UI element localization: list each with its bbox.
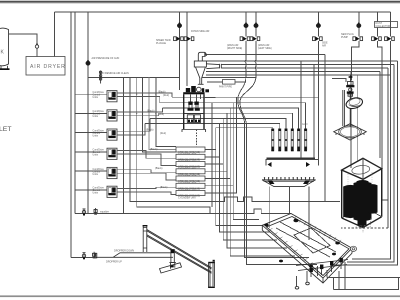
svg-text:Units: Units	[93, 154, 99, 157]
spray gun 2	[278, 129, 281, 152]
wire pump connector	[332, 79, 346, 83]
wire right nest 2	[347, 65, 394, 263]
gauge+frl new plug pump	[353, 12, 363, 41]
dropper plate	[160, 263, 182, 273]
junction dots	[123, 94, 156, 114]
paint pipe box	[207, 80, 246, 89]
wire bus to dust collector	[377, 12, 379, 22]
wire frl318 jog	[317, 41, 319, 160]
svg-text:CYLINDER UNIT: CYLINDER UNIT	[178, 197, 197, 200]
pump stand post	[343, 90, 350, 127]
pump stand motor	[346, 75, 354, 97]
valve ball equalize	[82, 209, 85, 216]
wire tank to valve	[9, 34, 38, 44]
wire box6 riser	[205, 103, 233, 186]
pump base plate	[334, 124, 367, 140]
wire box5 riser	[205, 108, 230, 178]
svg-text:(Black): (Black)	[146, 129, 154, 132]
dropper arm	[95, 253, 173, 258]
main air bus	[55, 11, 391, 13]
svg-text:GUN: GUN	[302, 123, 308, 126]
dropper beam end post	[208, 260, 215, 288]
spray gun 4	[291, 129, 294, 152]
unit output wires to label boxes	[117, 151, 176, 159]
bottom right wrap lines	[327, 262, 345, 290]
svg-text:(Black): (Black)	[158, 90, 166, 93]
wire tank to right	[204, 96, 216, 98]
svg-text:Units: Units	[93, 96, 99, 99]
paint tank fittings	[186, 86, 209, 92]
unit output wires: unit1 to gun nest	[117, 93, 172, 97]
black cylinder bundle	[343, 180, 377, 227]
frl dust 1	[372, 28, 382, 41]
black box dotted edges	[348, 172, 372, 214]
cyclone inlet duct	[206, 64, 221, 69]
svg-text:equalize: equalize	[100, 210, 110, 213]
paint tank lid	[183, 92, 204, 94]
valve ball dropper	[82, 253, 85, 260]
air dryer box	[26, 57, 66, 76]
wire header drop 6	[156, 78, 176, 147]
wire header drop 3	[137, 78, 210, 214]
cyclone body	[194, 61, 206, 84]
wire gun clean header	[88, 77, 180, 79]
wire black box feeds	[350, 72, 352, 169]
svg-text:PAINT PIPE: PAINT PIPE	[219, 86, 232, 89]
svg-text:(Black): (Black)	[155, 167, 163, 170]
control unit 3	[75, 129, 117, 140]
paint tank agitator	[188, 94, 201, 111]
wire header drop 5	[149, 78, 176, 150]
svg-text:(Red): (Red)	[160, 132, 166, 135]
wire dust drop 2 to bottom	[352, 41, 391, 259]
dropper beam diagonals	[147, 230, 212, 274]
table top	[262, 214, 352, 284]
wire dropper line	[71, 256, 96, 258]
wire box7 riser	[205, 97, 237, 193]
bottom border frame line	[0, 295, 400, 297]
valve stack on clean header	[99, 71, 101, 84]
svg-text:Units: Units	[93, 134, 99, 137]
wire x380 drop	[379, 72, 381, 159]
wire box3 riser	[205, 119, 223, 165]
spray gun 6	[304, 129, 307, 152]
louver teeth	[264, 177, 314, 180]
frl dust 2	[385, 12, 395, 41]
wire right nest 3	[333, 61, 398, 265]
wire right nest 4	[387, 68, 389, 228]
control unit 4	[75, 148, 117, 159]
louver legs	[270, 187, 309, 240]
control unit 1	[75, 91, 117, 102]
dashed drop to box1	[196, 130, 198, 148]
label box 6	[176, 183, 205, 192]
svg-text:AIR DRYER: AIR DRYER	[30, 64, 66, 70]
wire x301 drop	[300, 61, 302, 160]
gauge+frl main air left	[250, 12, 260, 41]
paint tank inner containers	[187, 115, 200, 123]
black box frame top	[342, 158, 382, 227]
air tank (cut off at left edge)	[0, 28, 10, 70]
label box 2	[176, 154, 205, 163]
label box 7	[176, 191, 205, 200]
spray gun 5	[297, 129, 300, 152]
wire air dryer to main bus	[54, 12, 56, 57]
valve reg dropper	[93, 252, 96, 258]
svg-text:(RIGHT SIDE): (RIGHT SIDE)	[227, 47, 242, 50]
table legs	[295, 266, 317, 289]
svg-text:Units: Units	[93, 115, 99, 118]
spray gun 1	[271, 129, 274, 152]
table inner panel	[294, 228, 330, 253]
unit output wires: unit2 to gun nest	[117, 108, 162, 112]
control unit 2	[75, 110, 117, 121]
wire header drop 1	[123, 78, 125, 214]
valve V1	[35, 44, 38, 57]
wire drop x71 to dropper line	[70, 12, 72, 257]
svg-text:Units: Units	[93, 192, 99, 195]
dropper beam post	[143, 225, 148, 252]
air bus lines right section	[206, 53, 325, 55]
svg-text:DROPPER UP: DROPPER UP	[106, 261, 122, 264]
wire under box	[356, 219, 371, 234]
wire new plug pump to pump	[352, 41, 359, 80]
svg-text:LET: LET	[0, 126, 11, 133]
paint tank frame	[182, 94, 206, 132]
wire box4 riser	[205, 113, 227, 171]
top border frame line	[0, 1, 400, 4]
louver platform	[262, 180, 316, 187]
cyclone outlet elbow	[198, 52, 206, 61]
wire main air hoses to double line	[238, 41, 309, 257]
spreader bar	[266, 158, 319, 167]
wire drop x88 gun pressure	[87, 12, 89, 214]
svg-text:PUMP: PUMP	[341, 36, 348, 39]
gauge+frl down side air left	[174, 12, 184, 90]
svg-text:GUN RESIDUE AIR CLEAN: GUN RESIDUE AIR CLEAN	[99, 72, 129, 75]
svg-text:(Black): (Black)	[150, 148, 158, 151]
gauge+frl main air right	[240, 12, 250, 41]
label box 5	[176, 176, 205, 185]
wire header drop 4	[143, 78, 177, 153]
label box 1	[176, 147, 205, 156]
gauge+frl side air x318	[313, 12, 323, 41]
svg-text:DROPPER DOWN: DROPPER DOWN	[114, 250, 134, 253]
wire risers lower continuation	[216, 150, 263, 226]
svg-text:PLUGGE: PLUGGE	[156, 42, 166, 45]
dropper slider	[169, 250, 176, 269]
wire dust drop 1	[378, 41, 389, 200]
svg-text:(Black): (Black)	[160, 186, 168, 189]
pump bucket	[345, 96, 364, 110]
svg-text:DOWN SIDE AIR: DOWN SIDE AIR	[191, 30, 210, 33]
svg-text:(LEFT SIDE): (LEFT SIDE)	[258, 47, 272, 50]
wire equalize line	[75, 209, 291, 214]
svg-text:AIR: AIR	[322, 45, 326, 48]
table rollers	[264, 219, 356, 268]
dust collector label box	[375, 22, 398, 28]
gauge+frl down side air right	[184, 12, 194, 86]
unit output wires: unit3 to gun nest	[117, 119, 150, 132]
control unit 5	[75, 167, 117, 178]
wire box2 riser	[205, 123, 220, 157]
table under frame	[296, 258, 348, 277]
label box 4	[176, 169, 205, 178]
wire drop x75 to equalize line	[74, 12, 76, 214]
control unit 6	[75, 186, 117, 197]
wire header drop 2	[130, 78, 340, 202]
spray gun 3	[285, 129, 288, 152]
svg-text:AIR PRESSURE OF GUN: AIR PRESSURE OF GUN	[92, 57, 120, 60]
svg-text:(Red): (Red)	[163, 94, 169, 97]
gun nest feed lines	[172, 96, 318, 98]
gauge gun pressure	[86, 60, 90, 65]
wire box1 riser to gun nest	[205, 128, 273, 150]
valve reg equalize	[94, 208, 97, 215]
label box 3	[176, 162, 205, 171]
svg-text:(Black): (Black)	[147, 110, 155, 113]
wire x325 drop	[324, 54, 326, 201]
svg-text:COLLECTOR: COLLECTOR	[376, 25, 391, 28]
svg-text:Units: Units	[93, 173, 99, 176]
wire x314 to spreader	[313, 65, 315, 160]
